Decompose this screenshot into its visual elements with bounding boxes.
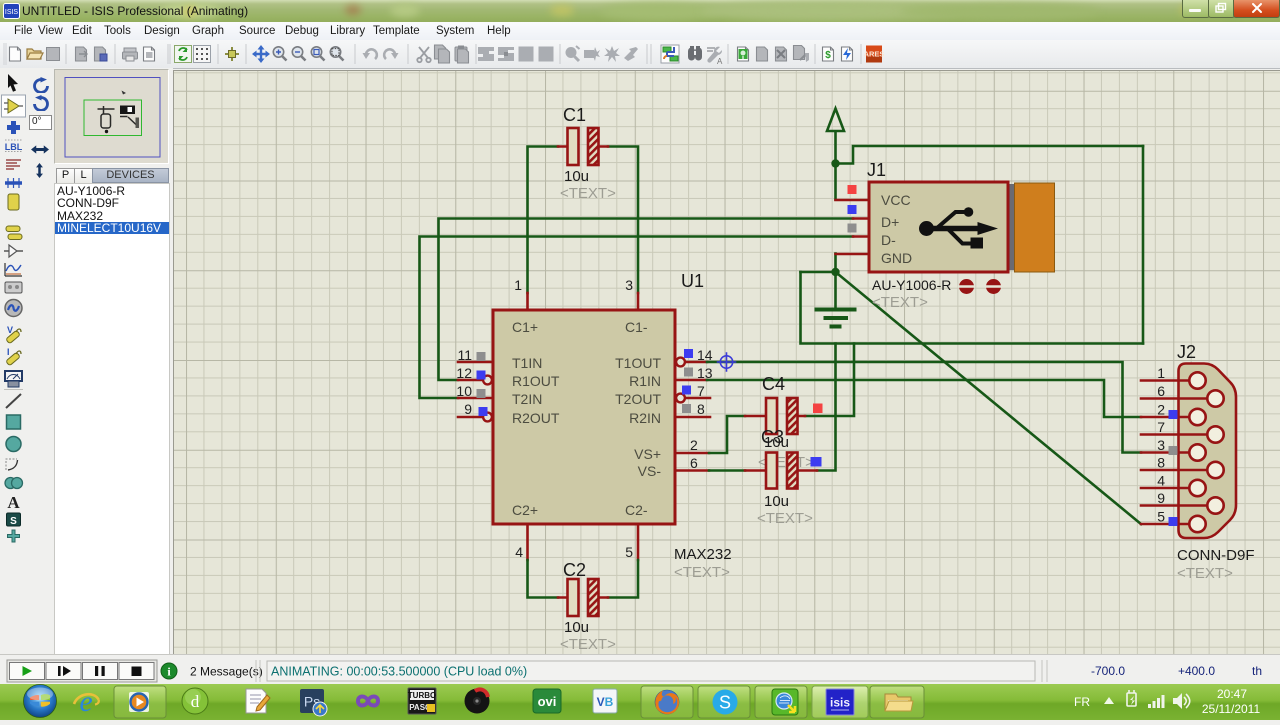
J2 pin 9: [1141, 490, 1224, 514]
Photoshop icon: [300, 689, 327, 716]
voltage probe tool icon: [6, 325, 21, 344]
state indicator grey (pin 11): [477, 352, 486, 361]
wire C1 right to pin3: [608, 147, 638, 294]
device pin tool icon: [4, 245, 23, 257]
capacitor C1: [558, 128, 608, 165]
svg-text:5: 5: [625, 544, 633, 560]
IDM taskbar button: [755, 686, 807, 718]
Menu bar: [0, 22, 1280, 41]
svg-text:25/11/2011: 25/11/2011: [1202, 702, 1261, 716]
svg-text:10u: 10u: [764, 434, 789, 451]
2d box tool icon: [7, 415, 21, 429]
component tool icon: [4, 99, 23, 113]
wire VCC step to top rail: [836, 146, 1144, 164]
J2 pin 5: [1141, 509, 1206, 533]
svg-text:AU-Y1006-R: AU-Y1006-R: [872, 277, 951, 293]
capacitor C4: [745, 398, 805, 434]
svg-text:D+: D+: [881, 214, 899, 230]
tape recorder tool icon: [5, 282, 22, 293]
wire ground drop to C4 negative: [805, 344, 854, 417]
J1 pin D-: [853, 235, 869, 238]
U1 pin R1OUT: [458, 373, 560, 389]
junction dot tool icon: [7, 121, 20, 134]
svg-text:C2: C2: [563, 560, 586, 580]
state indicator grey (pin 8): [682, 404, 691, 413]
svg-text:13: 13: [697, 365, 713, 381]
devices list: [54, 183, 170, 657]
svg-text:$: $: [825, 50, 831, 61]
U1 pin R2IN: [629, 410, 710, 426]
svg-text:10u: 10u: [564, 168, 589, 185]
Status bar: [0, 654, 1280, 685]
J1 pin D+: [853, 217, 869, 220]
svg-text:R1IN: R1IN: [629, 373, 661, 389]
state indicator blue (J1 D+): [848, 205, 857, 214]
svg-text:R2OUT: R2OUT: [512, 410, 560, 426]
wire C1 left to pin1: [528, 147, 559, 294]
cursor target marker: [718, 353, 736, 371]
wire bottom rail: [801, 272, 1144, 344]
svg-text:S: S: [719, 693, 731, 713]
J2 pin 3: [1141, 437, 1206, 461]
terminal tool icon: [6, 226, 22, 240]
junction VCC: [831, 159, 839, 167]
power symbol VCC arrow: [827, 109, 844, 200]
svg-text:MAX232: MAX232: [674, 546, 732, 563]
svg-text:11: 11: [457, 347, 472, 363]
wire label tool icon: [5, 140, 23, 152]
state indicator grey (J1 D-): [848, 224, 857, 233]
Toolbar: [0, 40, 1280, 69]
svg-text:isis: isis: [830, 696, 850, 710]
buses tool icon: [5, 178, 22, 188]
U1 pin VS-: [638, 463, 709, 479]
svg-text:<TEXT>: <TEXT>: [757, 510, 813, 527]
svg-text:2: 2: [690, 437, 698, 453]
svg-text:J1: J1: [867, 160, 886, 180]
svg-text:2: 2: [1157, 402, 1165, 418]
cursor tool icon: [8, 74, 18, 92]
rotate clockwise icon: [32, 77, 50, 93]
state indicator blue (pin 7): [682, 386, 691, 395]
Turbo Pascal icon: [408, 688, 436, 714]
svg-text:20:47: 20:47: [1217, 687, 1247, 701]
state indicator blue (pin 14): [684, 349, 693, 358]
wire GND junction link: [801, 254, 836, 273]
svg-text:VS-: VS-: [638, 463, 662, 479]
svg-text:6: 6: [690, 455, 698, 471]
vinyl record icon: [465, 689, 490, 714]
svg-text:8: 8: [697, 401, 705, 417]
svg-text:10: 10: [456, 383, 472, 399]
U1 pin 4 stub+wire: [528, 524, 559, 598]
svg-text:9: 9: [464, 401, 472, 417]
svg-text:ANIMATING: 00:00:53.500000 (CP: ANIMATING: 00:00:53.500000 (CPU load 0%): [271, 665, 527, 679]
selection highlight on component tool: [2, 95, 26, 117]
connector J1 body: [869, 182, 1055, 272]
svg-text:T2OUT: T2OUT: [615, 391, 661, 407]
J2 pin 6: [1141, 383, 1224, 407]
mirror horizontal icon: [31, 145, 49, 154]
Taskbar: [0, 684, 1280, 720]
svg-text:4: 4: [515, 544, 523, 560]
wire VS- to C3: [709, 469, 745, 472]
connector J2 body: [1179, 364, 1237, 539]
Left tool strip: [0, 68, 28, 654]
2d arc tool icon: [6, 459, 18, 470]
ground symbol: [817, 272, 855, 327]
svg-text:+400.0: +400.0: [1178, 664, 1215, 678]
svg-text:C2-: C2-: [625, 502, 648, 518]
U1 pin T1IN: [458, 355, 542, 371]
svg-text:J2: J2: [1177, 342, 1196, 362]
capacitor C2: [558, 579, 608, 616]
preview window: [54, 69, 169, 164]
svg-text:A: A: [717, 57, 723, 66]
svg-text:9: 9: [1157, 490, 1165, 506]
state indicator blue (J2 pin2): [1169, 410, 1178, 419]
svg-text:1: 1: [514, 277, 522, 293]
svg-text:S: S: [10, 516, 17, 527]
svg-text:A: A: [7, 493, 20, 512]
wire D- from J1 to T2IN: [420, 237, 854, 399]
capacitor C3: [745, 453, 817, 489]
Left panel: [27, 68, 173, 654]
marker circle 1 (J1): [959, 279, 974, 294]
svg-text:T1IN: T1IN: [512, 355, 542, 371]
subcircuit tool icon: [8, 194, 19, 210]
svg-text:TURBO: TURBO: [408, 691, 436, 700]
J2 pin 7: [1141, 419, 1224, 443]
svg-text:C2+: C2+: [512, 502, 538, 518]
svg-text:3: 3: [1157, 437, 1165, 453]
svg-text:GND: GND: [881, 250, 912, 266]
svg-text:<TEXT>: <TEXT>: [872, 294, 928, 311]
U1 pin 3 stub: [637, 293, 640, 310]
svg-text:R2IN: R2IN: [629, 410, 661, 426]
rotate anticlockwise icon: [32, 95, 50, 111]
current probe tool icon: [6, 347, 21, 366]
U1 pin R2OUT: [458, 410, 560, 426]
tray network signal icon: [1148, 695, 1165, 708]
state indicator blue (pin 12): [477, 371, 486, 380]
svg-text:10u: 10u: [564, 619, 589, 636]
tray power icon: [1127, 690, 1136, 706]
svg-text:CONN-D9F: CONN-D9F: [1177, 547, 1255, 564]
VB icon: [593, 689, 617, 713]
svg-text:4: 4: [1157, 473, 1165, 489]
state indicator blue (C3): [811, 457, 822, 467]
svg-text:LBL: LBL: [5, 142, 23, 152]
USB glyph inside J1: [919, 207, 998, 248]
wire R1IN to J2 pin2: [707, 380, 1141, 417]
text script tool icon: [6, 160, 21, 169]
svg-text:<TEXT>: <TEXT>: [560, 185, 616, 202]
svg-text:1: 1: [1157, 365, 1165, 381]
mirror vertical icon: [35, 163, 44, 178]
J2 pin 1: [1141, 365, 1206, 389]
virtual instrument tool icon: [5, 371, 22, 387]
svg-text:6: 6: [1157, 383, 1165, 399]
Firefox taskbar button: [641, 686, 693, 718]
svg-text:C1+: C1+: [512, 319, 538, 335]
separator: [4, 389, 23, 391]
U1 pin T2OUT: [615, 391, 710, 407]
svg-text:<TEXT>: <TEXT>: [560, 636, 616, 653]
svg-text:VCC: VCC: [881, 192, 911, 208]
state indicator grey (pin 13): [684, 368, 693, 377]
generator tool icon: [5, 300, 22, 317]
svg-text:T2IN: T2IN: [512, 391, 542, 407]
Notepad icon: [246, 689, 270, 713]
tray show hidden arrow: [1104, 697, 1114, 704]
U1 pin 1 stub: [526, 293, 529, 310]
svg-text:U1: U1: [681, 271, 704, 291]
U1 pin 5 stub+wire: [608, 524, 638, 598]
WMP taskbar button: [114, 686, 166, 718]
state indicator red (C4): [813, 404, 823, 414]
2d marker tool icon: [8, 530, 20, 542]
svg-text:8: 8: [1157, 455, 1165, 471]
J2 pin 8: [1141, 455, 1224, 479]
devices header: [54, 168, 167, 183]
state indicator grey (J2 pin3): [1169, 446, 1178, 455]
svg-text:T1OUT: T1OUT: [615, 355, 661, 371]
graph tool icon: [5, 263, 22, 276]
J1 pin GND: [836, 253, 870, 256]
svg-text:C1-: C1-: [625, 319, 648, 335]
2d closed path tool icon: [5, 478, 23, 489]
marker circle 2 (J1): [986, 279, 1001, 294]
svg-text:5: 5: [1157, 509, 1165, 525]
svg-text:C4: C4: [762, 374, 785, 394]
svg-text:7: 7: [697, 383, 705, 399]
Canvas: [173, 70, 1280, 654]
svg-text:e: e: [79, 685, 92, 718]
svg-text:2 Message(s): 2 Message(s): [190, 665, 263, 679]
svg-text:FR: FR: [1074, 695, 1090, 709]
svg-text:ISIS: ISIS: [5, 9, 19, 16]
U1 pin T2IN: [458, 391, 542, 407]
wire VS+ to C4: [709, 416, 745, 453]
wire diagonal GND to J2 pin5: [836, 272, 1142, 524]
svg-text:ARES: ARES: [864, 50, 885, 59]
svg-text:R1OUT: R1OUT: [512, 373, 560, 389]
svg-text:3: 3: [625, 277, 633, 293]
Dreamweaver icon: [182, 688, 208, 714]
svg-text:I: I: [7, 347, 10, 357]
start orb: [24, 685, 57, 718]
svg-text:C1: C1: [563, 105, 586, 125]
svg-text:ovi: ovi: [538, 694, 557, 709]
svg-text:VB: VB: [597, 695, 614, 709]
IE icon: [74, 685, 99, 718]
wire right rail down: [1142, 146, 1145, 344]
J2 pin 2: [1141, 402, 1206, 426]
state indicator blue (J2 pin5): [1169, 517, 1178, 526]
svg-text:d: d: [191, 692, 200, 711]
J2 pin 4: [1141, 473, 1206, 497]
svg-text:<TEXT>: <TEXT>: [674, 564, 730, 581]
svg-text:-700.0: -700.0: [1091, 664, 1125, 678]
angle edit box: [29, 115, 52, 130]
tray speaker icon: [1173, 693, 1190, 709]
svg-text:10u: 10u: [764, 493, 789, 510]
wire D+ from J1 to R1OUT: [439, 219, 854, 381]
2d circle tool icon: [6, 437, 21, 452]
junction GND: [831, 268, 839, 276]
state indicator red (J1 VCC): [848, 185, 857, 194]
U1 pin VS+: [634, 446, 709, 462]
svg-text:14: 14: [697, 347, 713, 363]
2d line tool icon: [6, 394, 21, 408]
J1 pin VCC: [836, 199, 870, 202]
svg-text:VS+: VS+: [634, 446, 661, 462]
Explorer taskbar button: [870, 686, 924, 718]
Visual Studio infinity icon: [358, 697, 378, 706]
ISIS taskbar button (active): [812, 686, 868, 718]
Ovi icon: [533, 689, 561, 713]
svg-text:12: 12: [456, 365, 472, 381]
U1 pin R1IN: [629, 373, 707, 389]
svg-text:7: 7: [1157, 419, 1165, 435]
Skype taskbar button: [698, 686, 750, 718]
svg-text:th: th: [1252, 664, 1262, 678]
svg-text:D-: D-: [881, 232, 896, 248]
wire T1OUT to J2 pin3: [707, 362, 1141, 453]
IC U1 MAX232 body: [493, 310, 675, 524]
svg-text:<TEXT>: <TEXT>: [1177, 565, 1233, 582]
state indicator grey (pin 10): [477, 389, 486, 398]
wire ground drop to C3 negative: [817, 344, 836, 471]
Title bar: [0, 0, 1280, 23]
2d symbol tool icon: [7, 513, 21, 527]
U1 pin T1OUT: [615, 355, 707, 371]
state indicator blue (pin 9): [479, 407, 488, 416]
